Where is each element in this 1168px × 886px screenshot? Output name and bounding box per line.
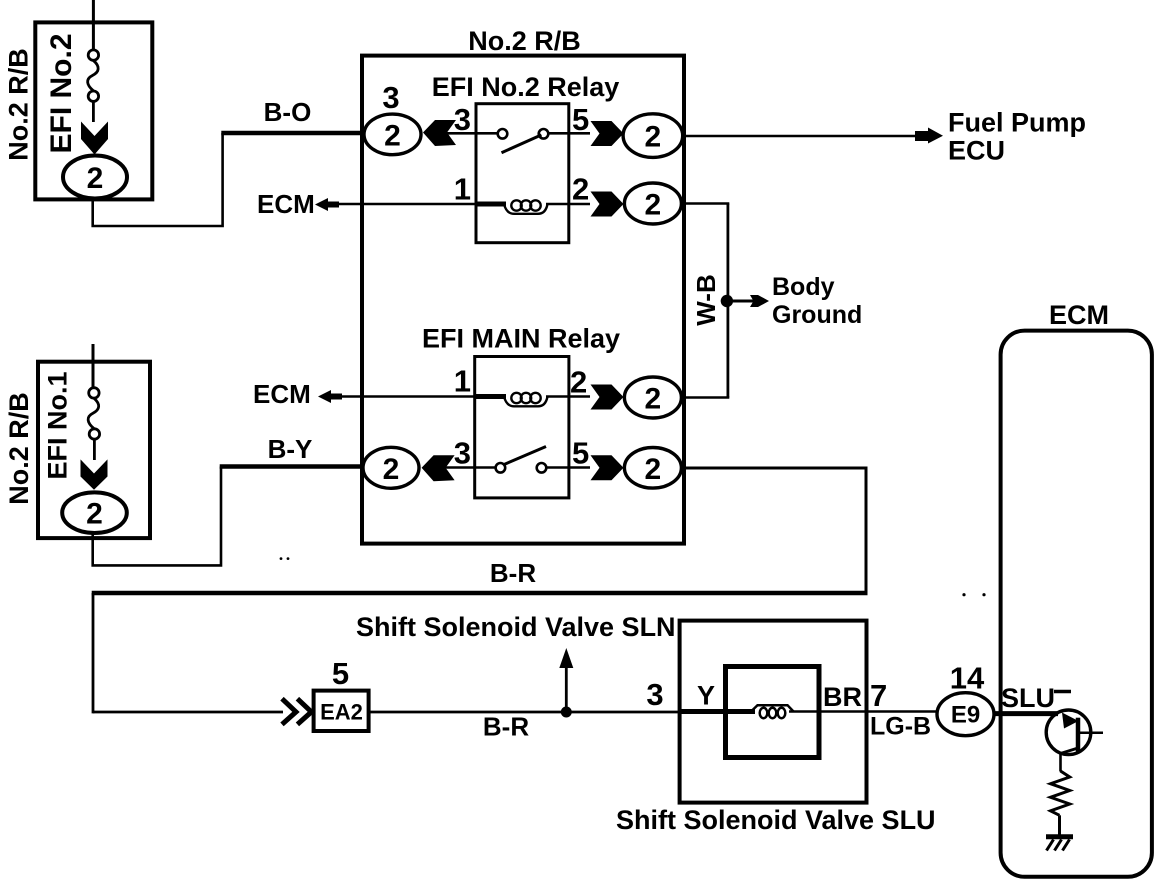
transistor base bar bbox=[1076, 718, 1081, 752]
wire B-R vertical right bbox=[865, 468, 868, 593]
svg-text:ECM: ECM bbox=[257, 189, 315, 219]
connector oval 2 (lower box) bbox=[62, 492, 127, 533]
relay EFI MAIN box bbox=[475, 357, 569, 498]
heavy wire into SLU coil bbox=[680, 709, 755, 714]
svg-text:2: 2 bbox=[384, 119, 401, 152]
svg-text:2: 2 bbox=[86, 498, 103, 531]
svg-text:Shift Solenoid Valve SLU: Shift Solenoid Valve SLU bbox=[616, 805, 936, 835]
arrowhead to ECM (relay2) bbox=[318, 390, 342, 403]
arrowhead right (relay1 pin2) bbox=[591, 192, 624, 217]
connector oval 2 (top box) bbox=[63, 156, 127, 199]
wire to body ground arrow bbox=[728, 300, 754, 303]
wire up to SLN bbox=[565, 662, 568, 712]
wire pin5 relay2 bbox=[546, 466, 590, 469]
connector oval 2 (relay1 switch right) bbox=[623, 114, 683, 158]
relay2 switch contacts bbox=[496, 463, 506, 473]
svg-text:5: 5 bbox=[572, 102, 589, 137]
svg-text:2: 2 bbox=[570, 365, 587, 400]
svg-text:Ground: Ground bbox=[772, 301, 862, 329]
scan noise dots bbox=[962, 593, 965, 596]
relay1 switch contacts bbox=[498, 129, 508, 139]
arrow into connector (top box) bbox=[81, 122, 108, 155]
svg-text:Shift Solenoid Valve SLN: Shift Solenoid Valve SLN bbox=[356, 612, 676, 642]
arrowhead right (relay1 pin5) bbox=[591, 121, 624, 146]
wire B-R from relay2 to right bbox=[682, 467, 868, 470]
wire B-O bbox=[221, 131, 364, 135]
wire to Fuel Pump ECU bbox=[683, 135, 918, 138]
svg-text:ECU: ECU bbox=[948, 136, 1005, 166]
svg-text:No.2 R/B: No.2 R/B bbox=[4, 392, 34, 505]
svg-text:2: 2 bbox=[645, 383, 662, 416]
connector oval E9 bbox=[937, 693, 994, 736]
connector oval 2 (relay2 coil right) bbox=[624, 377, 681, 418]
wire oval to W-B line bbox=[682, 202, 730, 205]
relay block No.2 R/B (center) bbox=[362, 56, 684, 544]
relay2 switch blade bbox=[504, 447, 546, 465]
arrowhead left (relay2 pin3) bbox=[422, 455, 455, 481]
wire B-R long horizontal bbox=[92, 591, 868, 595]
arrowhead left (relay1 pin3) bbox=[423, 120, 456, 146]
svg-text:No.2 R/B: No.2 R/B bbox=[468, 26, 581, 56]
wire from lower box to B-Y bbox=[93, 467, 221, 566]
wire pin5 relay1 bbox=[548, 132, 590, 135]
svg-text:B-Y: B-Y bbox=[268, 434, 313, 464]
wire oval to W-B line (bottom) bbox=[682, 396, 730, 399]
svg-text:Body: Body bbox=[772, 273, 835, 301]
transistor base stub bbox=[1080, 731, 1103, 734]
transistor collector lead bbox=[1061, 748, 1079, 754]
svg-text:2: 2 bbox=[645, 121, 662, 154]
wire EA2 to SLU valve bbox=[369, 711, 681, 714]
svg-text:No.2 R/B: No.2 R/B bbox=[4, 48, 34, 161]
svg-text:3: 3 bbox=[646, 677, 663, 712]
svg-text:SLU: SLU bbox=[1001, 683, 1055, 713]
svg-text:E9: E9 bbox=[951, 702, 980, 729]
fuse EFI No.2 bbox=[88, 50, 99, 122]
svg-text:W-B: W-B bbox=[691, 274, 721, 325]
svg-text:3: 3 bbox=[382, 80, 399, 115]
wire W-B vertical bbox=[727, 204, 730, 398]
svg-text:3: 3 bbox=[454, 436, 471, 471]
wire B-Y bbox=[220, 464, 363, 468]
connector oval 2 (relay1 switch left) bbox=[364, 114, 421, 155]
svg-text:Y: Y bbox=[697, 681, 715, 711]
svg-text:BR: BR bbox=[823, 682, 862, 712]
svg-text:3: 3 bbox=[454, 102, 471, 137]
junction dot SLN branch bbox=[561, 707, 572, 718]
wire pin2 relay2 bbox=[546, 395, 590, 398]
svg-text:B-O: B-O bbox=[264, 97, 312, 127]
heavy wire into coil relay2 bbox=[475, 394, 506, 399]
connector oval 2 (relay2 switch left) bbox=[363, 447, 419, 488]
svg-text:ECM: ECM bbox=[253, 379, 311, 409]
svg-text:LG-B: LG-B bbox=[870, 713, 931, 741]
junction block box No.2 R/B (top left) bbox=[35, 22, 152, 199]
arrowhead right (relay2 pin2) bbox=[591, 385, 624, 410]
svg-text:14: 14 bbox=[950, 661, 985, 696]
transistor emitter arrow bbox=[1062, 713, 1079, 729]
arrowhead right (relay2 pin5) bbox=[591, 455, 624, 480]
wire into fuse EFI No.1 bbox=[92, 344, 95, 388]
connector oval 2 (relay2 switch right) bbox=[624, 448, 681, 489]
fuse EFI No.1 bbox=[88, 388, 99, 460]
svg-text:EFI No.2: EFI No.2 bbox=[45, 33, 78, 153]
arrowhead to ECM (relay1) bbox=[315, 198, 339, 211]
svg-text:B-R: B-R bbox=[483, 712, 529, 742]
heavy wire into coil relay1 bbox=[476, 202, 506, 207]
wire bottom run to EA2 bbox=[93, 711, 283, 714]
wire into fuse EFI No.2 bbox=[92, 0, 95, 50]
svg-text:1: 1 bbox=[454, 172, 471, 207]
svg-text:EFI No.2 Relay: EFI No.2 Relay bbox=[432, 72, 620, 102]
svg-text:B-R: B-R bbox=[490, 558, 536, 588]
SLU inner box bbox=[726, 667, 820, 758]
SLU solenoid coil bbox=[751, 705, 794, 718]
relay2 coil bbox=[504, 393, 548, 407]
connector EA2 box bbox=[314, 691, 369, 731]
relay1 switch blade bbox=[502, 135, 542, 153]
svg-text:5: 5 bbox=[332, 656, 349, 691]
svg-text:2: 2 bbox=[572, 172, 589, 207]
relay1 coil bbox=[504, 200, 548, 214]
heavy wire E9 to transistor bbox=[993, 711, 1058, 716]
svg-text:EA2: EA2 bbox=[320, 700, 363, 725]
svg-text:5: 5 bbox=[572, 436, 589, 471]
wire resistor to ground bbox=[1058, 815, 1061, 837]
wire from top box to B-O bbox=[93, 133, 223, 226]
svg-text:EFI MAIN Relay: EFI MAIN Relay bbox=[422, 324, 620, 354]
ground symbol bbox=[1046, 834, 1073, 839]
wire B-R vertical left bbox=[92, 593, 95, 713]
transistor circle bbox=[1046, 710, 1091, 755]
ECM box bbox=[1001, 331, 1152, 877]
arrowhead to Body Ground bbox=[750, 295, 769, 307]
connector oval 2 (relay1 coil right) bbox=[624, 183, 681, 224]
wire pin2 relay1 bbox=[546, 203, 590, 206]
wire pin3 relay1 bbox=[446, 132, 500, 135]
minus sign of SLU- bbox=[1054, 690, 1071, 694]
junction block box No.2 R/B (lower left) bbox=[38, 362, 150, 538]
wire pin3 relay2 bbox=[445, 466, 498, 469]
relay EFI No.2 box bbox=[476, 104, 569, 243]
arrowhead to Fuel Pump ECU bbox=[915, 128, 943, 144]
resistor bbox=[1051, 771, 1070, 815]
chevrons into EA2 bbox=[282, 699, 311, 725]
svg-text:1: 1 bbox=[454, 364, 471, 399]
wire transistor to resistor bbox=[1059, 752, 1062, 772]
wire SLU coil to E9 bbox=[789, 710, 938, 713]
svg-text:2: 2 bbox=[645, 189, 662, 222]
svg-text:2: 2 bbox=[383, 453, 400, 486]
svg-text:2: 2 bbox=[645, 453, 662, 486]
svg-text:ECM: ECM bbox=[1049, 300, 1109, 330]
arrowhead to SLN bbox=[559, 648, 573, 668]
svg-text:2: 2 bbox=[87, 162, 104, 195]
svg-text:Fuel Pump: Fuel Pump bbox=[948, 108, 1086, 138]
arrow into connector (lower box) bbox=[81, 459, 108, 489]
wire ECM to relay2 coil bbox=[341, 395, 476, 398]
junction dot body ground bbox=[721, 295, 733, 307]
wire ECM to relay1 coil bbox=[338, 203, 477, 206]
svg-text:EFI No.1: EFI No.1 bbox=[43, 371, 73, 479]
shift solenoid valve SLU box bbox=[680, 621, 867, 803]
svg-text:7: 7 bbox=[870, 678, 887, 713]
